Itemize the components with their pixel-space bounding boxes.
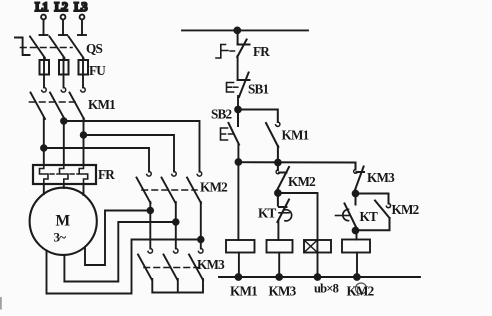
scan edge artifact	[0, 297, 2, 310]
svg-text:KM3: KM3	[269, 284, 297, 299]
node D	[235, 107, 241, 113]
wire phase2 KM1 to FR	[63, 118, 65, 165]
svg-text:KM1: KM1	[282, 128, 309, 143]
svg-text:3~: 3~	[54, 230, 67, 245]
wire KT NC to coil KM3	[277, 221, 279, 240]
wire phase1 KM1 to FR	[43, 118, 45, 165]
node phase2 tap	[61, 118, 67, 124]
wire node C to KM3 pole3	[200, 240, 202, 249]
node E	[236, 159, 242, 165]
svg-text:KM1: KM1	[88, 97, 115, 112]
node B	[173, 219, 179, 225]
svg-text:KM2: KM2	[392, 202, 420, 217]
fuse FU (3-pole)	[40, 58, 107, 78]
wire coil KM3 to bus	[278, 253, 280, 278]
svg-text:KM3: KM3	[197, 257, 225, 272]
svg-text:KM2: KM2	[347, 284, 375, 299]
svg-text:KT: KT	[258, 206, 276, 221]
node H	[353, 191, 359, 197]
svg-text:SB2: SB2	[211, 107, 233, 122]
start button SB2	[211, 107, 239, 145]
terminal L1	[35, 0, 48, 35]
wire FR to motor (3 leads)	[44, 184, 84, 195]
svg-text:KM3: KM3	[367, 170, 395, 185]
wire KM2 pole3 to node C	[200, 202, 202, 240]
svg-text:FR: FR	[253, 44, 270, 59]
node A	[148, 208, 154, 214]
wire node B to KM3 pole2	[175, 222, 177, 249]
control bus top	[182, 29, 308, 31]
disconnect switch QS	[15, 35, 102, 58]
node bus KM1	[236, 274, 242, 280]
KT NC delayed contact	[258, 193, 292, 222]
svg-text:QS: QS	[86, 41, 102, 56]
svg-text:KM2: KM2	[288, 174, 316, 189]
contactor KM3 main contacts	[138, 249, 225, 281]
wire motor lead V2 to node B	[64, 222, 176, 282]
node phase3 tap	[81, 132, 87, 138]
KM1 auxiliary NO contact	[238, 110, 309, 163]
node F (KM1 aux / KM2 NC)	[275, 160, 281, 166]
svg-text:KT: KT	[360, 209, 378, 224]
node bus KM3	[276, 274, 282, 280]
KT NO delayed contact	[336, 194, 378, 230]
node phase1 tap	[41, 145, 47, 151]
svg-text:FR: FR	[98, 167, 115, 182]
node bus top	[234, 28, 240, 34]
svg-text:KM1: KM1	[230, 284, 257, 299]
KM2 NC interlock contact	[276, 163, 316, 190]
coil KM3	[267, 240, 293, 253]
wire motor lead U2 to node A	[85, 211, 150, 266]
wire coil KT to bus	[317, 253, 319, 278]
contactor KM1 main contacts	[30, 75, 116, 120]
wire node E to coil KM1	[237, 162, 239, 240]
contactor KM2 main contacts	[137, 172, 229, 204]
wire KM3 star bar	[152, 279, 203, 293]
svg-text:KM2: KM2	[200, 180, 228, 195]
svg-text:ub×8: ub×8	[314, 282, 339, 296]
wire SB2 to node E	[237, 145, 239, 163]
wire node A to KM3 pole1	[149, 211, 151, 249]
coil KT (time relay)	[304, 240, 331, 253]
node bus KM2	[354, 274, 360, 280]
node C	[198, 237, 204, 243]
wire KM2 pole2 to node B	[175, 202, 177, 222]
wire motor lead W2 to node C	[47, 240, 201, 294]
wire phase3 KM1 to FR	[83, 118, 85, 165]
svg-text:SB1: SB1	[248, 82, 269, 97]
FR NC contact (control)	[216, 30, 270, 59]
node G	[275, 190, 281, 196]
node bus KT	[315, 274, 321, 280]
wire node G stub	[277, 189, 279, 193]
stop button SB1	[227, 73, 269, 98]
wire KM2 pole1 to node A	[149, 202, 151, 211]
coil KM1	[226, 240, 255, 253]
wire KT NO to node I	[355, 228, 358, 231]
svg-text:FU: FU	[89, 63, 106, 78]
coil KM2	[342, 240, 370, 253]
motor M 3~	[30, 188, 97, 255]
svg-text:L1: L1	[35, 0, 48, 14]
wire tap phase1 to KM2 pole1	[44, 148, 149, 172]
wire SB1 to node D	[237, 96, 239, 110]
thermal relay FR heaters	[33, 165, 115, 184]
wire FR to SB1	[237, 56, 239, 80]
node I	[353, 228, 359, 234]
KM3 NC interlock contact	[354, 163, 395, 191]
wire node I to coil KM2	[356, 231, 358, 240]
wire tap phase3 to KM2 pole2	[84, 135, 175, 172]
wire KM3 NC to node H	[355, 189, 357, 194]
svg-text:L3: L3	[74, 0, 87, 14]
KM2 NO auxiliary contact	[356, 194, 420, 231]
wire rung E to KM3 branch	[238, 161, 355, 163]
terminal L2	[55, 0, 68, 35]
wire node G to coil KT	[278, 193, 318, 240]
svg-text:L2: L2	[55, 0, 68, 14]
terminal L3	[74, 0, 87, 35]
svg-text:M: M	[56, 213, 71, 230]
wire coil KM1 to bus	[238, 253, 240, 278]
control bus bottom	[219, 276, 420, 278]
wire coil KM2 to bus	[356, 253, 358, 278]
wire tap phase2 to KM2 pole3	[64, 121, 200, 172]
